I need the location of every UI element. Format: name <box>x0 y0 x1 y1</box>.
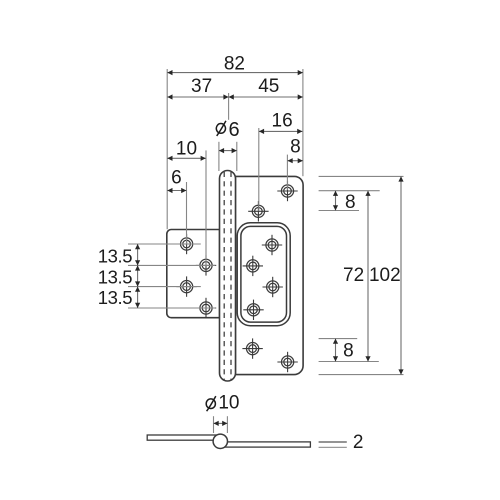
svg-text:2: 2 <box>353 432 364 453</box>
svg-text:6: 6 <box>171 167 182 188</box>
svg-text:37: 37 <box>191 76 212 97</box>
svg-text:10: 10 <box>218 393 239 414</box>
svg-text:8: 8 <box>343 340 354 361</box>
svg-text:6: 6 <box>228 119 239 141</box>
svg-text:82: 82 <box>224 53 245 74</box>
svg-text:72: 72 <box>343 265 364 286</box>
svg-text:8: 8 <box>290 136 301 157</box>
svg-text:8: 8 <box>345 192 356 213</box>
svg-text:16: 16 <box>272 111 293 132</box>
svg-text:45: 45 <box>258 76 279 97</box>
svg-text:13.5: 13.5 <box>98 267 133 288</box>
svg-text:10: 10 <box>176 139 197 160</box>
svg-text:13.5: 13.5 <box>98 287 133 308</box>
svg-text:13.5: 13.5 <box>98 245 133 266</box>
svg-text:102: 102 <box>369 265 401 286</box>
